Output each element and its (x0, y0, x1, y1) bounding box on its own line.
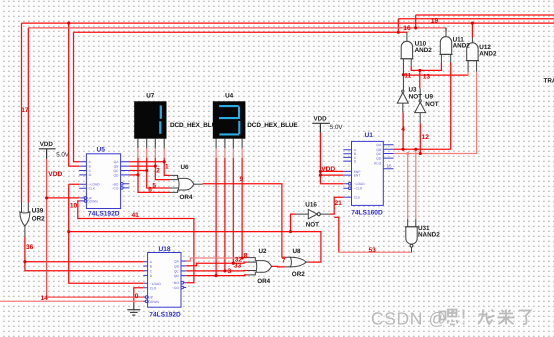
svg-text:QA: QA (174, 260, 180, 264)
svg-text:NAND2: NAND2 (418, 232, 440, 239)
svg-text:CLK: CLK (89, 187, 96, 191)
svg-text:AND2: AND2 (415, 47, 433, 54)
svg-text:CLK: CLK (354, 196, 361, 200)
svg-text:QC: QC (113, 169, 119, 173)
svg-text:11: 11 (404, 73, 411, 80)
svg-text:RCO: RCO (374, 161, 382, 165)
svg-text:17: 17 (21, 107, 29, 114)
svg-text:QD: QD (113, 173, 119, 177)
svg-text:~CO: ~CO (172, 286, 179, 290)
svg-text:U3: U3 (409, 87, 418, 94)
svg-text:13: 13 (423, 74, 431, 81)
svg-text:10: 10 (70, 202, 78, 209)
svg-text:21: 21 (335, 200, 343, 207)
svg-text:U18: U18 (159, 246, 171, 253)
svg-text:CLR: CLR (150, 286, 157, 290)
svg-text:0: 0 (135, 293, 139, 300)
svg-text:15: 15 (387, 164, 393, 169)
svg-text:U1: U1 (365, 132, 374, 139)
svg-text:8: 8 (244, 252, 248, 259)
svg-text:U8: U8 (293, 248, 302, 255)
svg-text:6: 6 (148, 187, 152, 194)
svg-text:U6: U6 (181, 164, 190, 171)
svg-text:OR2: OR2 (32, 216, 45, 223)
svg-text:~CLR: ~CLR (354, 187, 363, 191)
svg-text:14: 14 (41, 295, 49, 302)
svg-text:CSDN @: CSDN @ (371, 309, 447, 329)
svg-text:U7: U7 (146, 93, 155, 100)
svg-text:QA: QA (114, 160, 120, 164)
svg-text:1: 1 (165, 163, 169, 170)
svg-text:5: 5 (152, 182, 156, 189)
svg-text:16: 16 (403, 25, 411, 32)
svg-text:U4: U4 (225, 93, 234, 100)
svg-text:NOT: NOT (306, 221, 319, 228)
svg-text:~CO: ~CO (112, 186, 119, 190)
svg-text:OR2: OR2 (292, 271, 305, 278)
svg-text:5.0V: 5.0V (330, 124, 344, 131)
svg-text:74LS160D: 74LS160D (351, 209, 383, 216)
svg-text:53: 53 (369, 247, 377, 254)
svg-text:OR4: OR4 (180, 194, 193, 201)
svg-text:QD: QD (174, 274, 180, 278)
svg-text:VDD: VDD (40, 141, 54, 148)
svg-text:~BO: ~BO (172, 281, 179, 285)
svg-text:3: 3 (228, 268, 232, 275)
svg-text:DOWN: DOWN (148, 300, 159, 304)
svg-text:NOT: NOT (425, 101, 438, 108)
svg-text:U39: U39 (32, 208, 44, 215)
svg-text:~LOAD: ~LOAD (150, 282, 162, 286)
svg-text:NOT: NOT (409, 94, 422, 101)
svg-text:36: 36 (26, 244, 34, 251)
svg-text:12: 12 (422, 134, 430, 141)
svg-text:QC: QC (174, 269, 180, 273)
svg-text:OR4: OR4 (257, 278, 270, 285)
svg-text:7: 7 (282, 258, 286, 265)
svg-text:TRA: TRA (544, 77, 554, 84)
svg-text:74LS192D: 74LS192D (149, 311, 181, 318)
svg-text:33: 33 (234, 263, 242, 270)
svg-text:QB: QB (174, 264, 180, 268)
svg-text:QC: QC (376, 152, 382, 156)
svg-text:5.0V: 5.0V (56, 151, 70, 158)
svg-text:4: 4 (401, 126, 405, 133)
svg-text:QD: QD (376, 157, 382, 161)
svg-text:19: 19 (431, 18, 439, 25)
svg-text:U5: U5 (97, 146, 106, 153)
svg-text:2: 2 (156, 167, 160, 174)
svg-text:DCD_HEX_BLUE: DCD_HEX_BLUE (247, 122, 298, 129)
svg-text:AND2: AND2 (479, 51, 497, 58)
svg-text:QB: QB (114, 165, 120, 169)
svg-text:VDD: VDD (48, 171, 62, 178)
svg-text:ENT: ENT (354, 174, 361, 178)
svg-text:VDD: VDD (321, 166, 335, 173)
svg-text:DOWN: DOWN (87, 199, 98, 203)
svg-text:U2: U2 (259, 248, 268, 255)
svg-text:U9: U9 (425, 94, 434, 101)
svg-text:AND2: AND2 (453, 43, 471, 50)
svg-text:74LS192D: 74LS192D (88, 211, 120, 218)
svg-text:QA: QA (376, 143, 382, 147)
svg-text:41: 41 (132, 212, 140, 219)
svg-text:~LOAD: ~LOAD (354, 182, 366, 186)
svg-text:U16: U16 (305, 201, 317, 208)
svg-text:9: 9 (240, 176, 244, 183)
svg-text:VDD: VDD (314, 115, 328, 122)
